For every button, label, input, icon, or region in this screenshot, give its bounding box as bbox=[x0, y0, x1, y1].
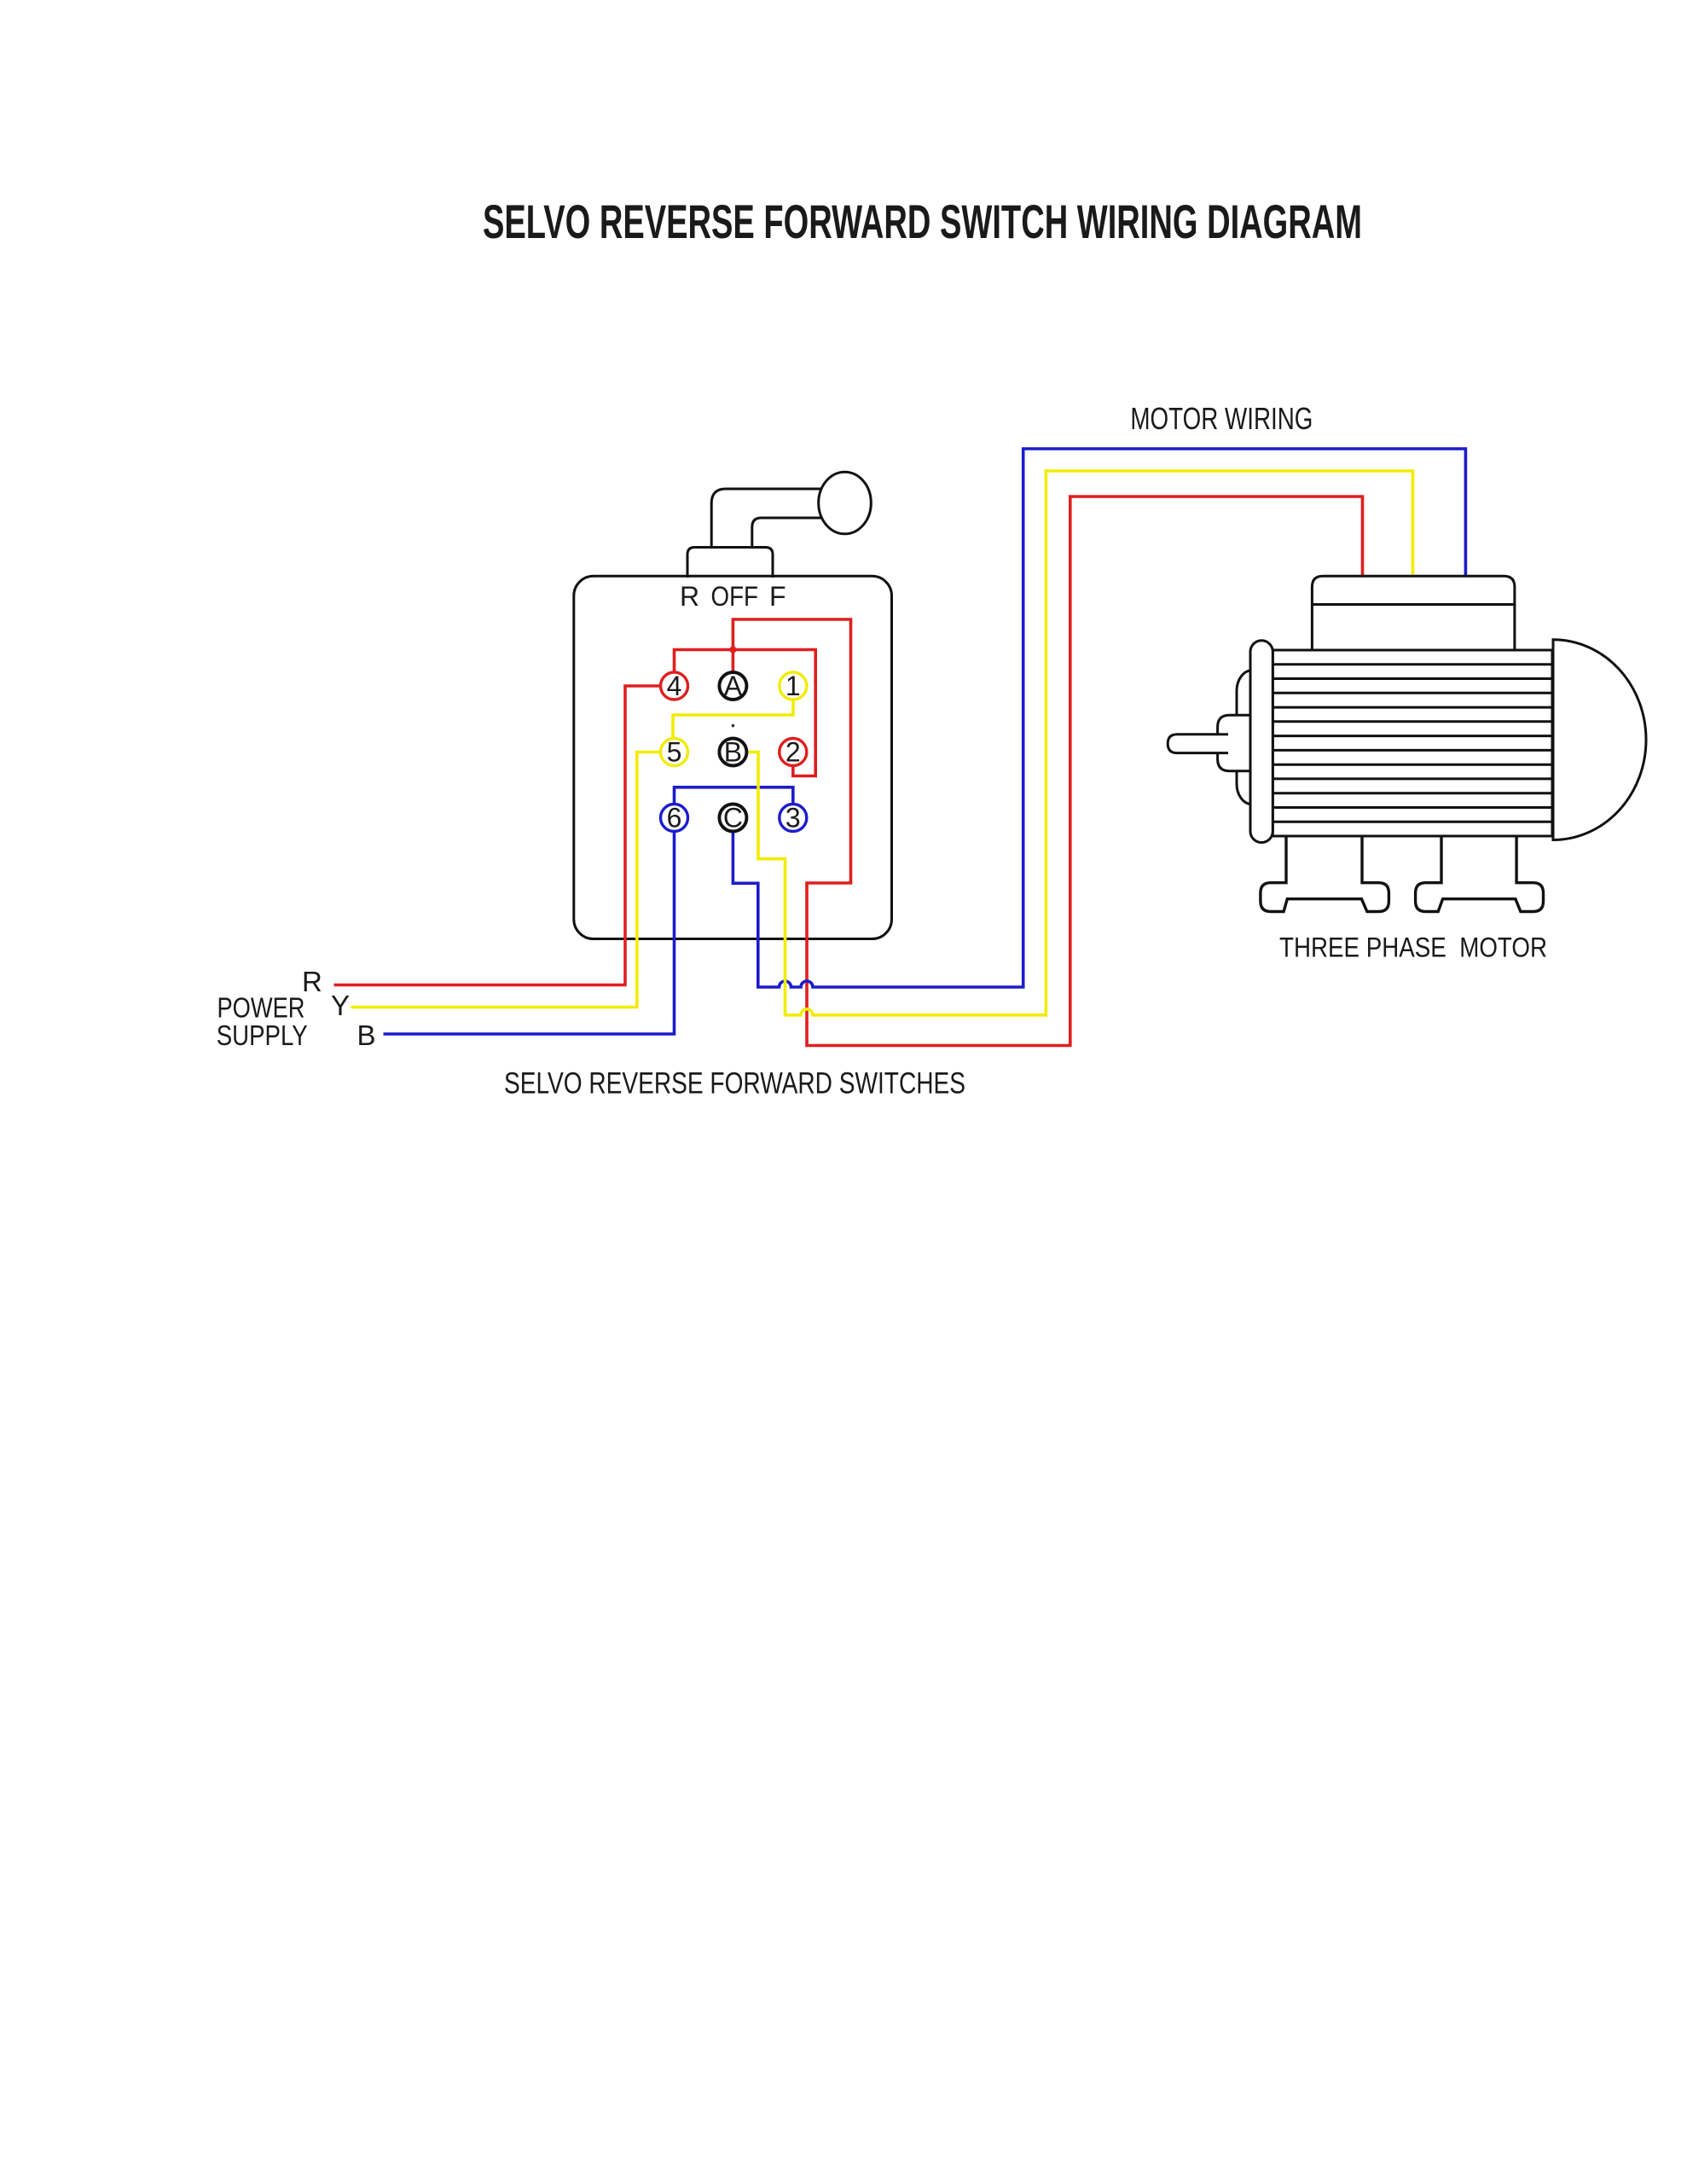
svg-text:6: 6 bbox=[667, 803, 682, 834]
svg-text:R: R bbox=[302, 966, 322, 997]
svg-text:C: C bbox=[723, 803, 743, 834]
svg-text:1: 1 bbox=[786, 671, 801, 701]
svg-text:SELVO REVERSE FORWARD SWITCHES: SELVO REVERSE FORWARD SWITCHES bbox=[504, 1066, 965, 1101]
svg-text:B: B bbox=[357, 1019, 376, 1051]
svg-text:R: R bbox=[680, 581, 699, 612]
svg-text:A: A bbox=[724, 671, 743, 701]
svg-text:POWER: POWER bbox=[217, 992, 305, 1024]
svg-text:2: 2 bbox=[786, 737, 801, 768]
svg-text:THREE PHASE MOTOR: THREE PHASE MOTOR bbox=[1279, 932, 1547, 963]
svg-text:5: 5 bbox=[667, 737, 682, 768]
svg-text:SUPPLY: SUPPLY bbox=[217, 1019, 308, 1051]
svg-text:Y: Y bbox=[331, 990, 350, 1021]
svg-text:F: F bbox=[769, 581, 786, 612]
svg-text:OFF: OFF bbox=[711, 581, 759, 612]
svg-text:MOTOR WIRING: MOTOR WIRING bbox=[1130, 401, 1313, 436]
svg-text:4: 4 bbox=[667, 671, 682, 701]
svg-text:B: B bbox=[724, 737, 742, 768]
svg-text:SELVO REVERSE FORWARD SWITCH W: SELVO REVERSE FORWARD SWITCH WIRING DIAG… bbox=[483, 195, 1362, 248]
svg-text:3: 3 bbox=[786, 803, 801, 834]
